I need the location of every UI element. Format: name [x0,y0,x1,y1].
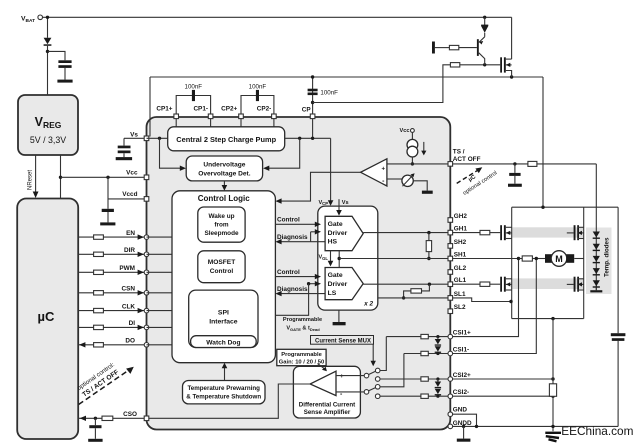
capacitor bulk C6 [617,207,619,333]
wire comparator minus input [387,178,402,180]
svg-text:EN: EN [126,230,135,237]
wire DO internal [147,344,173,346]
transistor Q2 NMOS reverse protection [500,57,502,72]
wire SH1 row internal [339,258,448,260]
pin SL2 [448,309,453,314]
node MUX contact 1 [375,368,380,373]
wire Vcc row [61,176,147,178]
wire Vs row external [124,137,147,139]
resistor R-CSO [102,416,113,420]
node junction CSI2+ shunt [551,377,554,380]
wire GH1 row internal [363,232,448,234]
label uC optional control right [458,163,499,197]
capacitor C1 [58,60,71,63]
svg-text:ACT OFF: ACT OFF [453,156,481,163]
wire feedback arrow HS [311,231,316,233]
svg-text:Control: Control [277,269,300,276]
wire current source to TS row [411,157,413,164]
motor terminal right pad [566,254,574,263]
ground for C1 [57,80,72,83]
pin Vs [144,136,149,141]
wire GL1 row internal [363,283,448,285]
arrow current direction [423,142,425,151]
highlight band LS row [512,278,584,289]
pin PWM [144,270,149,275]
ground chassis below shunt [545,433,561,442]
svg-text:Gate: Gate [328,272,343,279]
node junction Vcc [59,176,62,179]
svg-text:CP2-: CP2- [257,106,272,113]
terminal bar base [432,42,435,54]
arrow UV det to control logic [223,181,225,186]
node junction Vs UV branch [158,137,161,140]
wire Vs to UV det left arrow [160,138,181,168]
node junction shunt on bottom rail [551,317,554,320]
svg-text:Differential Current: Differential Current [299,401,355,408]
capacitor 100nF CP [308,89,318,92]
transistor M2 high side right NMOS [574,225,576,240]
label optional control TS/ACT OFF left [76,361,121,399]
svg-text:100nF: 100nF [320,89,338,96]
node MUX contact 3 [375,385,380,390]
svg-text:PWM: PWM [119,265,135,272]
wire CSI2+ external [453,378,553,380]
pin Vccd [144,197,149,202]
pin CSI2- [448,394,453,399]
capacitor C2 on Vs [118,146,131,149]
microcontroller uC block [17,199,78,440]
svg-text:Sleepmode: Sleepmode [204,230,239,237]
temp diodes chain [595,164,597,290]
wire CLK internal [147,310,173,312]
motor M [551,251,567,267]
ground for C2 [116,157,132,160]
block charge pump [168,127,285,151]
pin DO [144,343,149,348]
pin CP2- [272,114,277,119]
wire diag vertical HS [310,232,312,242]
ground for C4 [88,439,102,442]
node junction CP gate line [311,101,314,104]
node junction VBAT branch [46,16,49,19]
wire gate line to MOSFET [460,64,500,66]
svg-text:Programmable: Programmable [281,352,322,358]
arrow gain into amp [318,364,325,369]
resistor shunt ground [549,384,556,397]
resistor R-CLK [94,308,104,312]
op-amp gate driver HS [325,216,363,250]
svg-text:CSI2-: CSI2- [453,389,469,396]
node Vcc terminal [411,129,415,133]
node junction zener top [483,16,486,19]
svg-text:& Temperature Shutdown: & Temperature Shutdown [186,394,261,401]
svg-text:CP2+: CP2+ [221,106,237,113]
svg-text:5V / 3,3V: 5V / 3,3V [30,135,66,145]
wire to UV det right arrow [269,138,300,168]
pin SH1 [448,256,453,261]
capacitor C4 on CSO [94,418,96,425]
svg-text:Vccd: Vccd [122,191,137,198]
wire optional control dashed arrow left [79,370,130,405]
wire EN internal [147,236,173,238]
svg-text:CSI2+: CSI2+ [453,372,471,379]
resistor R-GL1 [480,282,490,286]
svg-text:VCP: VCP [318,200,328,206]
pin CSN [144,291,149,296]
wire comparator plus input row [387,163,448,165]
pin DI [144,325,149,330]
pin CSO [144,416,149,421]
pin CSI2+ [448,377,453,382]
wire CP pin stubs into pump box [175,119,177,127]
svg-text:SH1: SH1 [454,251,467,258]
highlight band HS row [512,227,584,237]
wire CSI1+ external [453,260,519,337]
svg-text:Control: Control [277,217,300,224]
wire Vs row right of pump to VCP bend [285,137,331,139]
svg-text:EEChina.com: EEChina.com [561,424,633,438]
svg-text:GH2: GH2 [454,213,468,220]
pin GL2 [448,270,453,275]
wire diagnosis arrow HS [281,241,325,243]
wire VREG output down to Vcc node [60,155,62,199]
svg-text:CP1-: CP1- [193,106,208,113]
svg-text:GL2: GL2 [454,265,467,272]
svg-text:GH1: GH1 [454,226,468,233]
svg-text:TS /: TS / [453,148,465,155]
svg-text:100nF: 100nF [249,83,267,90]
wire base line [435,47,450,49]
wire gate stub M2 [567,232,574,234]
node junction on SH1 [427,257,430,260]
resistor R-GH1-SH1 pulldown [428,233,430,241]
resistor R-EN [94,235,104,239]
svg-text:Wake up: Wake up [208,213,234,220]
pin DIR [144,252,149,257]
svg-text:M: M [555,254,563,264]
svg-text:GL1: GL1 [454,277,467,284]
node junction supply on top rail [541,206,544,209]
wire control arrow LS [275,276,315,278]
wire CP to gate of Q2 [313,65,451,103]
wire switch arm minus [369,388,376,391]
node junction GND bracket [475,425,478,428]
svg-text:Control Logic: Control Logic [198,194,251,203]
diode D1 reverse protection [44,38,52,45]
wire amp output to CSO [149,384,310,418]
block current sense MUX label box [311,336,374,345]
svg-text:CP1+: CP1+ [156,106,172,113]
variable resistor VR1 [402,175,413,186]
ground for C5 [508,184,522,187]
node junction Vccd branch [106,176,109,179]
wire PWM row [78,271,146,273]
node junction shunt left [517,257,520,260]
svg-text:Current Sense MUX: Current Sense MUX [315,338,371,344]
block programmable gain [277,349,326,365]
wire GH1 gate row to FET [453,232,480,234]
wire SH1 row to bridge [453,258,519,260]
svg-text:DIR: DIR [124,247,135,254]
pin TS/ACT OFF [448,162,453,167]
svg-text:DI: DI [129,320,136,327]
pin GH1 [448,230,453,235]
resistor shunt phase [522,256,532,261]
svg-text:Interface: Interface [209,319,238,326]
ground for GNDD [463,426,465,438]
node junction SL1 on left leg [509,300,512,303]
diode pair ESD CSI2 [436,377,439,380]
svg-text:Sense Amplifier: Sense Amplifier [304,409,351,416]
svg-text:+: + [340,374,344,380]
capacitor 100nF CP2 [256,90,259,101]
svg-text:Control: Control [210,268,234,275]
wire diode to VREG [47,46,49,95]
svg-text:+: + [382,167,386,173]
transistor M1 high side left NMOS [500,225,502,240]
svg-text:x 2: x 2 [363,301,373,308]
pin CSI1- [448,351,453,356]
resistor R-DO [94,343,104,347]
wire CSN internal [147,292,173,294]
block control logic [172,191,275,363]
node junction CP vertical on Vs row [311,137,314,140]
wire bridge bottom rail [512,318,584,320]
arrow CSO into uC [80,416,86,421]
svg-text:VGATE & tDead: VGATE & tDead [286,326,320,332]
svg-text:NReset: NReset [28,170,34,190]
wire CLK row [78,310,146,312]
capacitor C5 on TS [514,164,516,173]
resistor R-TS [528,161,537,166]
arrow EN into IC [138,234,144,239]
wire CSI1- external [453,260,537,354]
capacitor 100nF CP1 [192,90,195,101]
ground comparator [422,191,433,194]
pin GNDD [448,424,453,429]
svg-text:Watch Dog: Watch Dog [206,339,240,346]
wire EN row [78,236,146,238]
node junction gnd symbol [462,425,465,428]
motor terminal left pad [545,254,553,263]
arrow VGL between drivers [330,251,332,262]
arrow temperature box to control logic [224,368,226,381]
block wake up from sleepmode [198,207,245,242]
resistor R-GH1 [480,230,490,234]
wire switch arm plus [369,371,376,374]
wire DIR row [78,253,146,255]
wire diagnosis arrow LS [281,293,325,295]
node junction GL1 pulldown [428,283,431,286]
svg-text:HS: HS [328,239,338,246]
svg-text:VGL: VGL [318,255,328,261]
op-amp differential current sense amplifier U3 [310,371,336,395]
wire CP vertical to Vs rail [312,77,314,114]
block MOSFET control [198,251,245,283]
wire Vs rail down to Vs pin [149,77,151,137]
wire SL1 route into bridge [453,298,511,302]
resistor R-DIR [94,252,104,256]
node MUX input plus [364,373,369,378]
highlight band temp diodes [586,228,612,295]
block watch dog [191,336,257,348]
op-amp gate driver LS [325,268,363,300]
wire bridge right leg [583,207,585,318]
svg-text:Driver: Driver [328,281,348,288]
wire CP2 bracket [241,96,274,115]
svg-text:SL1: SL1 [454,291,466,298]
diode pair ESD CSI1 [436,335,439,338]
wire amp minus input [336,391,364,393]
pin CLK [144,308,149,313]
wire gate stub M4 [567,283,574,285]
wire PWM internal [147,271,173,273]
wire optional control dashed arrow right [457,170,479,184]
svg-text:Vs: Vs [130,131,138,138]
wire CP pin internal stub [312,119,314,139]
svg-text:CSN: CSN [122,286,136,293]
wire Vs supply rail y77 [150,76,543,78]
arrow CSN into IC [138,290,144,295]
svg-text:Central 2 Step Charge Pump: Central 2 Step Charge Pump [176,135,276,144]
node junction shunt right [535,257,538,260]
wire control arrow HS [275,223,315,225]
svg-text:CSI1-: CSI1- [453,346,469,353]
wire DO row [78,344,146,346]
wire contact1 to CSI1+ [380,337,386,371]
arrow DIR into IC [138,252,144,257]
wire Vcc to current source [411,132,413,139]
svg-text:LS: LS [328,290,337,297]
svg-text:CP: CP [302,106,312,113]
pin CP2+ [239,114,244,119]
transistor M3 low side left NMOS [500,277,502,292]
VREG regulator block [18,95,78,155]
svg-text:CSI1+: CSI1+ [453,329,471,336]
resistor R-CSI2p [421,377,428,381]
pin GH2 [448,218,453,223]
resistor R-DI [94,325,104,329]
capacitor C3 on Vccd [102,209,114,212]
svg-text:Undervoltage: Undervoltage [203,161,245,168]
node junction CP cap on rail [311,75,314,78]
wire Vs internal row [147,137,168,139]
wire Vccd branch [107,177,109,209]
wire VBAT branch down [47,17,49,38]
block gate driver container [318,206,378,310]
wire diag vertical LS [275,284,308,316]
node junction GH1 pulldown [427,231,430,234]
node MUX contact 4 [375,394,380,399]
svg-text:Programmable: Programmable [283,317,322,323]
pin EN [144,235,149,240]
op-amp comparator U2 [361,159,387,186]
node junction Q2 source on rail [510,75,513,78]
ground for C3 [100,222,115,225]
svg-text:Gain: 10 / 20 / 50: Gain: 10 / 20 / 50 [279,359,324,365]
pin CP [310,114,315,119]
svg-text:100nF: 100nF [185,83,203,90]
resistor R-CSI2n [421,394,428,398]
wire ground shunt vertical [552,319,554,384]
arrow CLK into IC [138,308,144,313]
pin GND [448,412,453,417]
wire DI internal [147,326,173,328]
block diff amp box [293,366,360,418]
svg-text:CSO: CSO [123,411,137,418]
wire contact3 to CSI1- [380,354,404,387]
current source I1 [407,139,418,150]
pin SL1 [448,296,453,301]
wire VBAT top rail [43,16,512,18]
svg-text:Vs: Vs [342,200,349,206]
arrow DI into IC [138,325,144,330]
block undervoltage overvoltage det [186,156,262,181]
wire bridge left leg [511,207,513,318]
svg-text:optional control: optional control [462,170,498,196]
svg-text:MOSFET: MOSFET [208,259,235,266]
pin Vcc [144,175,149,180]
svg-text:Diagnosis: Diagnosis [277,234,308,241]
resistor R-PWM [94,270,104,274]
node junction TS comparator [411,162,414,165]
resistor R-base [449,45,458,49]
arrow Vs into HS driver [338,199,340,211]
node MUX contact 2 [375,377,380,382]
svg-text:DO: DO [125,338,135,345]
transistor Q1 PNP [477,39,479,56]
svg-text:CLK: CLK [122,303,136,310]
IC main block [147,117,451,430]
svg-text:Vcc: Vcc [400,128,410,134]
wire var resistor to ground [413,181,427,191]
resistor R-gate [450,63,459,67]
svg-text:VBAT: VBAT [21,16,35,25]
wire NReset arrow VREG to uC [35,155,37,193]
wire DI row [78,326,146,328]
pin CSI1+ [448,334,453,339]
node junction BJT collector on gate line [483,63,486,66]
pin CP1- [208,114,213,119]
wire HS to LS link with SH tap [338,251,340,268]
svg-text:Overvoltage Det.: Overvoltage Det. [198,170,251,177]
wire GND bracket [453,414,477,426]
node MUX input minus [364,390,369,395]
wire contact4 to CSI2- [380,395,421,397]
node junction shunt bottom row [551,425,554,428]
svg-text:from: from [214,221,229,228]
node junction UV right branch [298,137,301,140]
wire CSO row [78,417,146,419]
wire TS row external [453,163,597,165]
svg-text:Vcc: Vcc [126,170,138,177]
wire CP1 bracket [176,96,210,115]
wire bridge top rail [512,206,618,208]
resistor R-GL1-SL1 pulldown [422,284,430,291]
wire Vccd row [108,198,147,200]
wire CSN row [78,292,146,294]
svg-text:Gate: Gate [328,221,343,228]
wire contact2 to CSI2+ [380,378,421,380]
wire comparator output to control logic [281,172,361,201]
pin CP1+ [174,114,179,119]
ground below driver box [338,310,340,322]
arrow PWM into IC [138,270,144,275]
svg-text:Temperature Prewarning: Temperature Prewarning [187,385,260,392]
wire rail to H-bridge top [542,77,544,207]
svg-text:SH2: SH2 [454,239,467,246]
wire VBAT to Q2 drain [511,17,513,59]
